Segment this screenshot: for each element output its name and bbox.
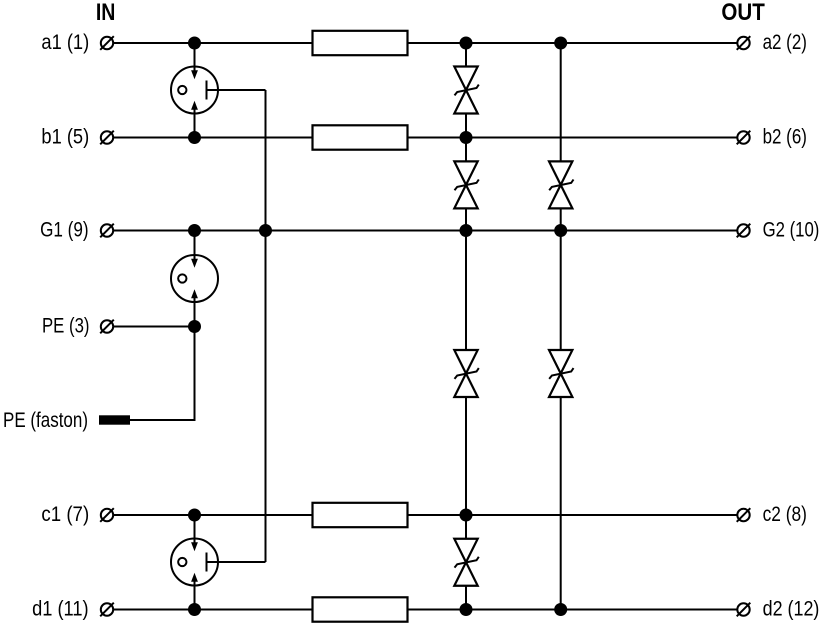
terminal a1 (1) xyxy=(100,36,114,50)
junction dot row PE xyxy=(188,320,201,333)
resistor R2 xyxy=(313,125,408,149)
wire d row right of resistor xyxy=(408,609,738,611)
svg-text:b1 (5): b1 (5) xyxy=(41,126,89,149)
wire d1 row left xyxy=(114,609,313,611)
svg-text:c2 (8): c2 (8) xyxy=(763,503,807,526)
svg-text:d1 (11): d1 (11) xyxy=(32,598,89,621)
suppressor diode V2 xyxy=(454,161,479,208)
terminal d2 (12) xyxy=(737,603,751,617)
terminal c1 (7) xyxy=(100,508,114,522)
resistor R1 xyxy=(313,31,408,55)
svg-text:a1 (1): a1 (1) xyxy=(41,31,89,54)
suppressor diode V1 xyxy=(454,67,479,114)
svg-text:PE (3): PE (3) xyxy=(42,315,90,338)
terminal G2 (10) xyxy=(737,224,751,238)
junction dots row c xyxy=(188,509,473,522)
terminal PE (3) xyxy=(100,320,114,334)
resistor R4 xyxy=(313,597,408,621)
gas discharge tube F2 xyxy=(171,231,218,327)
suppressor diode V3 xyxy=(454,350,479,397)
junction dots row G xyxy=(188,224,567,237)
wire a row right of resistor xyxy=(408,42,738,44)
svg-text:c1 (7): c1 (7) xyxy=(41,503,89,526)
terminal b2 (6) xyxy=(737,131,751,145)
junction dots row b xyxy=(188,131,473,144)
wire ground bus vertical xyxy=(265,90,267,562)
gas discharge tube F1 xyxy=(171,43,266,138)
svg-text:a2 (2): a2 (2) xyxy=(763,31,807,54)
terminal G1 (9) xyxy=(100,224,114,238)
terminal d1 (11) xyxy=(100,603,114,617)
svg-text:d2 (12): d2 (12) xyxy=(763,598,820,621)
wire suppressor bus 2 xyxy=(560,43,562,610)
suppressor diode V5 xyxy=(549,161,574,208)
wire b1 row left xyxy=(114,137,313,139)
terminal c2 (8) xyxy=(737,508,751,522)
wire c1 row left xyxy=(114,514,313,516)
wire a1 row left xyxy=(114,42,313,44)
wire G row xyxy=(114,230,738,232)
junction dots row d xyxy=(188,603,567,616)
gas discharge tube F3 xyxy=(171,515,266,610)
wire b row right of resistor xyxy=(408,137,738,139)
suppressor diode V4 xyxy=(454,539,479,586)
PE faston terminal lug xyxy=(99,415,130,424)
svg-text:G1 (9): G1 (9) xyxy=(40,219,89,242)
wire suppressor bus 1 xyxy=(465,43,467,610)
resistor R3 xyxy=(313,503,408,527)
svg-text:b2 (6): b2 (6) xyxy=(763,126,807,149)
terminal a2 (2) xyxy=(737,36,751,50)
svg-text:PE (faston): PE (faston) xyxy=(3,409,88,432)
wire PE row xyxy=(114,326,195,328)
wire PE faston run xyxy=(130,327,195,421)
svg-text:IN: IN xyxy=(96,0,116,26)
suppressor diode V6 xyxy=(549,350,574,397)
svg-text:G2 (10): G2 (10) xyxy=(763,219,820,242)
wire c row right of resistor xyxy=(408,514,738,516)
terminal b1 (5) xyxy=(100,131,114,145)
junction dots row a xyxy=(188,37,567,50)
svg-text:OUT: OUT xyxy=(721,0,765,26)
